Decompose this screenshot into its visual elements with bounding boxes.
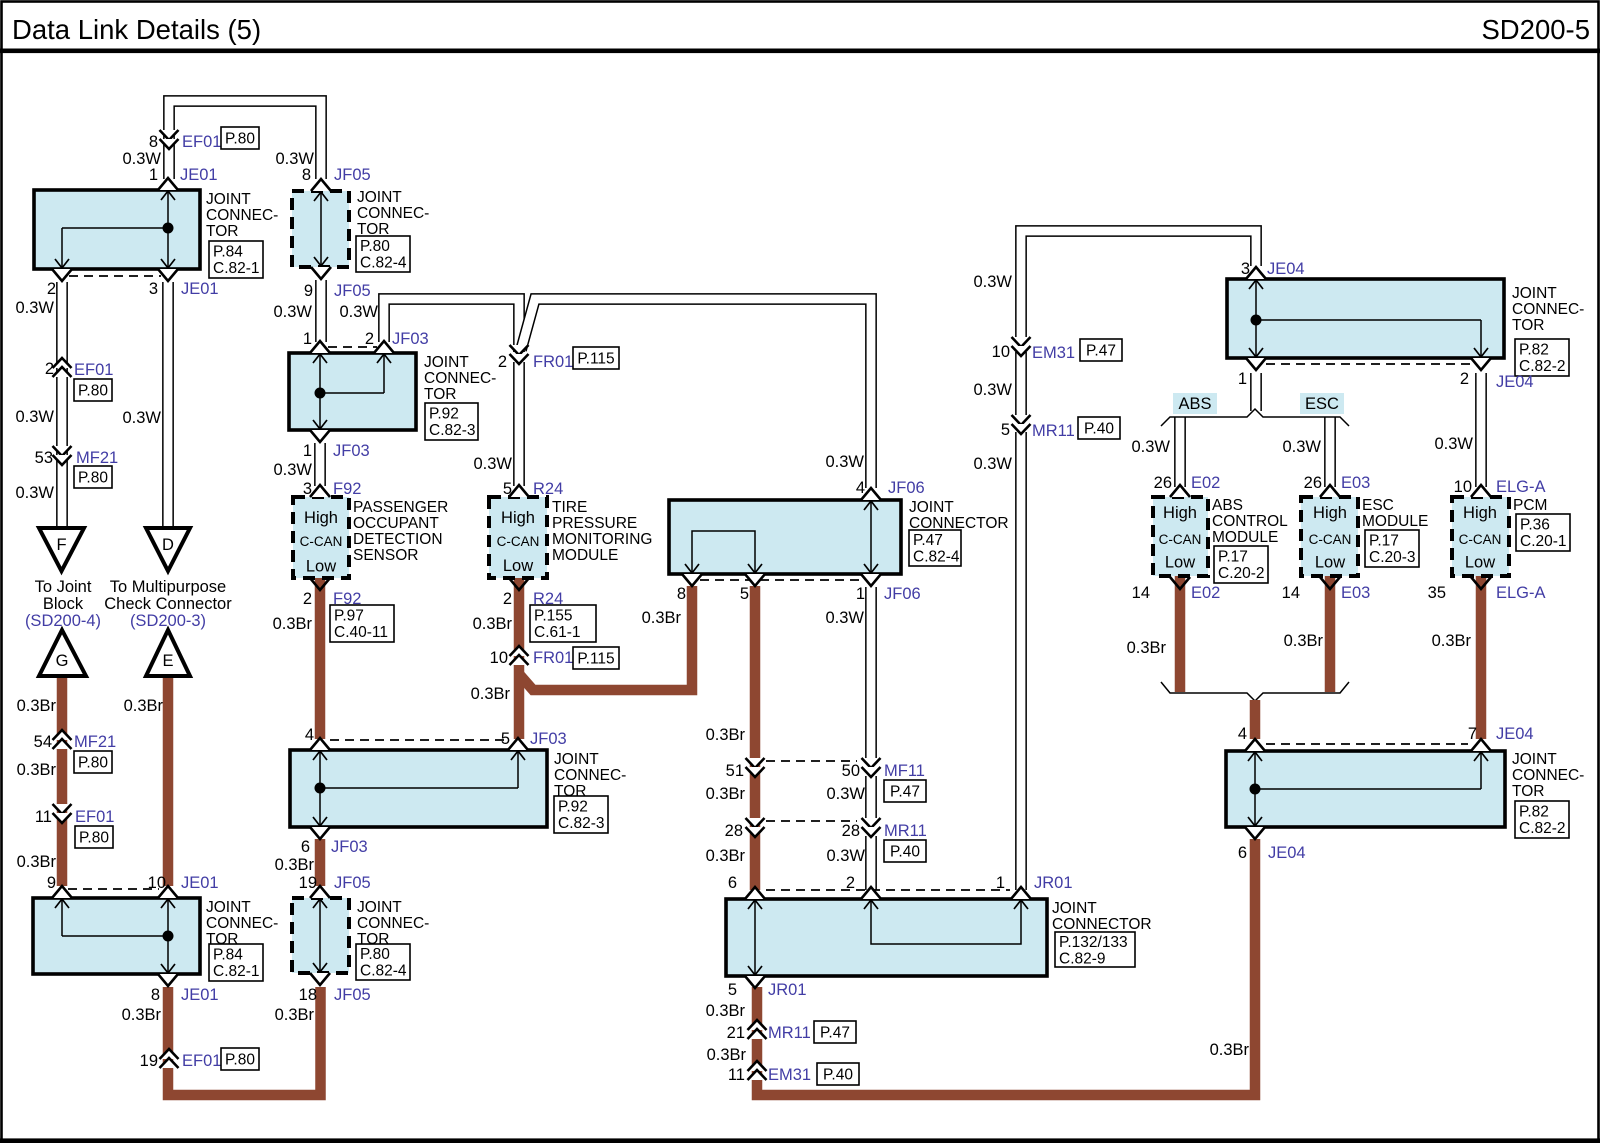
svg-text:P.80: P.80 [360,946,390,963]
svg-text:CONNECTOR: CONNECTOR [1052,916,1152,933]
label 0.3W wire MR11-5 to JR01-1 [973,455,1012,473]
svg-text:High: High [1463,504,1497,522]
svg-text:0.3W: 0.3W [273,461,312,479]
wire F92-2 to JF03-4 (0.3Br) [315,578,326,739]
svg-text:0.3Br: 0.3Br [17,853,57,871]
pin 9 JF05 label [304,282,371,300]
svg-text:Low: Low [306,558,336,576]
svg-text:MF21: MF21 [76,449,118,467]
wire split to E02-26 ABS branch (0.3W) [1174,417,1186,487]
svg-text:19: 19 [140,1052,158,1070]
svg-text:4: 4 [856,479,865,497]
pin 7 JE04 label (lower) [1468,725,1534,743]
label 0.3Br wire JF06-8 branch [471,685,511,703]
inline connector MF21 pin 53 [P.80] [35,446,119,488]
svg-text:CONNEC-: CONNEC- [1512,301,1584,318]
svg-text:JF03: JF03 [392,330,429,348]
pin 8 JE01 label [151,986,219,1004]
svg-text:JOINT: JOINT [909,499,954,516]
svg-text:0.3W: 0.3W [473,455,512,473]
svg-text:JR01: JR01 [1034,874,1073,892]
wire E03-14 to merge bus (0.3Br) [1325,576,1336,692]
module E02 ABS control module [1153,485,1288,589]
svg-text:28: 28 [725,822,743,840]
svg-text:6: 6 [301,838,310,856]
wire JF06-8 branch to R24 wire (0.3Br) [519,586,692,690]
svg-text:0.3Br: 0.3Br [706,1002,746,1020]
wire R24-2 to JF03-5 (0.3Br) [514,578,525,739]
wire EM31 loop to JE04-3 (0.3W) [1021,231,1256,340]
svg-text:SENSOR: SENSOR [353,547,418,564]
svg-text:F: F [56,536,66,554]
pin 26 E02 label [1154,474,1221,492]
pin 6 JF03 label [301,838,368,856]
svg-text:0.3W: 0.3W [15,408,54,426]
svg-text:14: 14 [1282,584,1300,602]
svg-text:8: 8 [149,133,158,151]
pin 1 JE04 label [1238,370,1247,388]
pin 5 JR01 label [728,981,807,999]
label 0.3W wire JF03-1 to F92 [273,461,312,479]
svg-text:CONNEC-: CONNEC- [357,205,429,222]
off-page triangle E from multipurpose check connector [146,630,190,676]
svg-text:0.3W: 0.3W [973,273,1012,291]
inline connector MR11 pins 28/28 [P.40] [725,818,927,862]
svg-text:11: 11 [728,1066,745,1084]
svg-text:E03: E03 [1341,474,1370,492]
svg-text:JE01: JE01 [181,280,219,298]
svg-text:10: 10 [992,343,1010,361]
svg-text:P.132/133: P.132/133 [1059,934,1128,951]
pin 10 JE01 label [148,874,219,892]
svg-text:1: 1 [303,442,312,460]
svg-text:1: 1 [149,166,158,184]
svg-text:0.3W: 0.3W [122,150,161,168]
svg-text:C-CAN: C-CAN [1159,532,1202,547]
svg-text:Block: Block [43,595,84,613]
svg-text:P.80: P.80 [225,1052,255,1069]
pin 2 JE04 label [1460,370,1534,391]
wire MF11-50 to MR11-28 (0.3W) [865,776,877,822]
svg-text:C.82-4: C.82-4 [360,963,407,980]
svg-text:54: 54 [34,733,52,751]
label 0.3Br wire MF21-54 to EF01-11 [17,761,57,779]
svg-text:EM31: EM31 [1032,344,1075,362]
svg-text:0.3Br: 0.3Br [706,847,746,865]
svg-text:FR01: FR01 [533,649,573,667]
wire MR11-28 to JR01-2 (0.3W) [865,836,877,890]
svg-text:JF05: JF05 [334,282,371,300]
wire JE01-1 to JF05-8 loop (0.3W) [169,101,321,179]
pin 3 JE01 label [149,280,219,298]
svg-text:CONNEC-: CONNEC- [1512,767,1584,784]
wire MR11-5 to JR01-1 (0.3W) [1015,432,1027,890]
svg-text:P.47: P.47 [1086,343,1116,360]
pin 1 JF06 label [856,585,921,603]
svg-text:JF03: JF03 [333,442,370,460]
pin 6 JE04 label (lower) [1238,844,1306,862]
svg-text:0.3W: 0.3W [1282,438,1321,456]
svg-text:C.82-3: C.82-3 [558,815,605,832]
svg-text:PASSENGER: PASSENGER [353,499,448,516]
dashed link JE01 pins 2-3 [69,275,161,277]
svg-text:26: 26 [1154,474,1172,492]
joint connector JF05 (bottom) P.80 C.82-4 [292,886,429,985]
label 0.3W wire JF05-9 [273,303,312,321]
svg-text:0.3Br: 0.3Br [124,697,164,715]
svg-text:0.3Br: 0.3Br [471,685,511,703]
label 0.3W wire EF01-2 to MF21-53 [15,408,54,426]
label 0.3Br wire G [17,697,57,715]
label 0.3W wire JE01-3 to D [122,409,161,427]
svg-text:P.80: P.80 [360,238,390,255]
pin 14 E02 label [1132,584,1221,602]
svg-text:High: High [1163,504,1197,522]
net tag ABS [1173,393,1217,414]
svg-text:P.84: P.84 [213,947,243,964]
svg-text:JE01: JE01 [180,166,218,184]
pin 9 JE01 label [47,874,56,892]
inline connector MF11 pins 51/50 [P.47] [726,758,926,802]
wire JF05-9 to JF03-1 (0.3W) [315,280,327,342]
svg-text:CONNEC-: CONNEC- [206,207,278,224]
svg-text:ESC: ESC [1362,497,1394,514]
svg-text:JF06: JF06 [884,585,921,603]
wire JE01-8 to JF05-18 bottom run (0.3Br) [168,987,321,1095]
svg-text:10: 10 [490,649,508,667]
svg-text:C-CAN: C-CAN [300,534,343,549]
svg-text:7: 7 [1468,725,1477,743]
svg-text:C.82-4: C.82-4 [360,255,407,272]
label 0.3Br wire R24-2 [473,615,513,633]
label 0.3Br wire E [124,697,164,715]
dashed link JE04 pins 4-7 [1266,743,1468,745]
svg-text:2: 2 [303,590,312,608]
joint connector JF03 (lower) P.92 C.82-3 [290,738,626,839]
svg-text:ABS: ABS [1178,395,1211,413]
svg-text:1: 1 [856,585,865,603]
ABS/ESC split bus [1161,409,1349,426]
svg-text:2: 2 [45,360,54,378]
svg-text:0.3W: 0.3W [826,785,865,803]
svg-text:5: 5 [1001,421,1010,439]
wire EM31-10 to MR11-5 (0.3W) [1015,352,1027,420]
label 0.3W ELG-A branch [1434,435,1473,453]
pin 5 R24 label [503,480,563,498]
pin 4 JF06 label [856,479,925,497]
pin 2 R24 label [P.155 C.61-1] [503,590,596,642]
svg-text:P.92: P.92 [429,406,459,423]
joint connector JE04 (bottom) P.82 C.82-2 [1226,739,1584,839]
svg-text:2: 2 [47,280,56,298]
svg-text:JF05: JF05 [334,874,371,892]
svg-text:0.3Br: 0.3Br [707,1046,747,1064]
svg-text:TOR: TOR [1512,783,1544,800]
svg-text:JE01: JE01 [181,986,219,1004]
wire JE04-2 to ELG-A-10 (0.3W) [1475,373,1487,487]
wire JF03-2 to FR01-2 (0.3W) [384,299,519,352]
svg-text:JOINT: JOINT [424,354,469,371]
label 0.3Br wire JE04-6 bottom run [1210,1041,1250,1059]
svg-text:18: 18 [299,986,317,1004]
pin 4 JE04 label (lower) [1238,725,1247,743]
svg-text:JE01: JE01 [181,874,219,892]
svg-text:P.82: P.82 [1519,342,1549,359]
inline connector MR11 pin 5 [P.40] [1001,415,1120,440]
label 0.3Br wire JE01-8 [122,1006,162,1024]
svg-text:CONNEC-: CONNEC- [554,767,626,784]
label 0.3Br wire JF03-6 [275,856,315,874]
joint connector JE01 (bottom) P.84 C.82-1 [33,886,278,986]
label 0.3Br wire ELG-A-35 [1432,632,1472,650]
svg-text:MONITORING: MONITORING [552,531,652,548]
svg-text:P.80: P.80 [78,470,108,487]
dashed link JF06 pins 8-1 [700,579,862,581]
svg-text:0.3Br: 0.3Br [473,615,513,633]
label 0.3W wire FR01 to R24 [473,455,512,473]
svg-text:P.84: P.84 [213,244,243,261]
wire JF06-5 to JR01-6 (0.3Br) [750,586,761,890]
svg-text:E02: E02 [1191,584,1220,602]
svg-text:JOINT: JOINT [1512,751,1557,768]
joint connector JR01 P.132/133 C.82-9 [726,887,1152,988]
svg-text:0.3Br: 0.3Br [1127,639,1167,657]
label 0.3W ABS branch [1131,438,1170,456]
svg-text:19: 19 [299,874,317,892]
wire ELG-A-35 to JE04-7 (0.3Br) [1476,576,1487,739]
pin 5 JF03 label (lower top) [501,730,567,748]
svg-text:JOINT: JOINT [206,899,251,916]
svg-text:0.3Br: 0.3Br [273,615,313,633]
svg-text:EF01: EF01 [75,808,114,826]
pin 2 F92 label [P.97 C.40-11] [303,590,394,642]
svg-text:P.80: P.80 [78,383,108,400]
svg-text:EF01: EF01 [182,133,221,151]
svg-text:Data Link Details (5): Data Link Details (5) [12,14,261,45]
label 0.3Br wire JR01-5 [706,1002,746,1020]
svg-text:P.80: P.80 [78,755,108,772]
svg-text:EM31: EM31 [768,1066,811,1084]
svg-text:CONTROL: CONTROL [1212,513,1288,530]
wire JF03-1 to F92-3 (0.3W) [314,443,326,486]
svg-text:4: 4 [305,726,314,744]
label 0.3W wire EM31-10 to MR11-5 [973,381,1012,399]
svg-text:C.61-1: C.61-1 [534,624,581,641]
svg-text:0.3Br: 0.3Br [275,856,315,874]
svg-text:P.97: P.97 [334,608,364,625]
dashed link JF03 pins 4-5 [330,739,507,741]
svg-text:C.82-3: C.82-3 [429,422,476,439]
joint connector JF06 P.47 C.82-4 [669,488,1009,586]
svg-text:DETECTION: DETECTION [353,531,443,548]
svg-text:EF01: EF01 [182,1052,221,1070]
svg-text:5: 5 [501,730,510,748]
svg-text:P.115: P.115 [577,651,614,668]
svg-text:JF05: JF05 [334,166,371,184]
label 0.3Br wire F92-2 [273,615,313,633]
inline connector EF01 pin 11 [P.80] [35,804,115,848]
svg-text:JOINT: JOINT [206,191,251,208]
brown merge bus to JE04-4 [1161,682,1349,701]
label 0.3W wire JF06-1 [825,609,864,627]
inline connector EF01 pin 19 [P.80] [140,1048,259,1070]
label 0.3Br wire EF01-11 to JE01-9 [17,853,57,871]
svg-text:CONNEC-: CONNEC- [206,915,278,932]
wire merge bus to JE04-4 (0.3Br) [1250,700,1261,739]
off-page triangle D to multipurpose check connector [146,528,190,571]
svg-text:PRESSURE: PRESSURE [552,515,637,532]
label 0.3Br wire 28 to JR01-6 [706,847,746,865]
svg-text:0.3Br: 0.3Br [275,1006,315,1024]
inline connector MF21 pin 54 [P.80] [34,730,117,773]
label 0.3Br wire JF06-8 [642,609,682,627]
wire JR01-5 to JE04-6 bottom run (0.3Br) [757,839,1255,1095]
label 0.3Br wire E03-14 [1284,632,1324,650]
svg-text:JOINT: JOINT [554,751,599,768]
note to multipurpose check connector (SD200-3) [104,578,232,630]
svg-text:26: 26 [1304,474,1322,492]
svg-text:Low: Low [503,557,533,575]
svg-text:35: 35 [1428,584,1446,602]
pin 10 ELG-A label [1454,478,1546,496]
svg-text:50: 50 [842,762,860,780]
pin 1 JF03 label (bottom) [303,442,370,460]
svg-text:E02: E02 [1191,474,1220,492]
svg-text:0.3W: 0.3W [973,381,1012,399]
svg-text:E03: E03 [1341,584,1370,602]
dashed link JE04 pins 1-2 [1266,363,1470,365]
svg-text:0.3W: 0.3W [826,847,865,865]
svg-text:JF03: JF03 [530,730,567,748]
svg-text:0.3Br: 0.3Br [706,785,746,803]
svg-text:6: 6 [1238,844,1247,862]
wire triangle G to JE01-9 (0.3Br) [57,676,68,886]
inline connector EM31 pin 11 [P.40] [728,1061,859,1085]
wire JF06-4 drop (0.3W) [0,0,1,1]
svg-text:0.3W: 0.3W [1434,435,1473,453]
label 0.3Br wire E02-14 [1127,639,1167,657]
svg-text:E: E [162,652,173,670]
svg-text:P.17: P.17 [1369,533,1399,550]
svg-text:0.3Br: 0.3Br [1284,632,1324,650]
wire triangle E to JE01-10 (0.3Br) [163,676,174,886]
dashed link JF03 pins 1-2 [328,346,377,348]
svg-text:C.82-2: C.82-2 [1519,820,1566,837]
svg-text:D: D [162,536,174,554]
svg-text:C-CAN: C-CAN [497,534,540,549]
svg-text:TIRE: TIRE [552,499,587,516]
wire FR01-2 to JF06-4 (0.3W) [521,299,871,488]
svg-text:C.40-11: C.40-11 [334,624,388,641]
svg-text:JF03: JF03 [331,838,368,856]
svg-text:0.3W: 0.3W [825,609,864,627]
svg-text:4: 4 [1238,725,1247,743]
svg-text:10: 10 [1454,478,1472,496]
dashed link 28-28 MR11 row [766,820,857,822]
svg-text:14: 14 [1132,584,1150,602]
svg-text:2: 2 [498,353,507,371]
svg-text:JE04: JE04 [1496,725,1534,743]
svg-text:JF05: JF05 [334,986,371,1004]
svg-text:9: 9 [304,282,313,300]
pin 19 JF05 label [299,874,371,892]
label 0.3W wire 50 to 28 [826,785,865,803]
pin 8 JF05 label [302,166,371,184]
label 0.3W wire JF03-2 [339,303,378,321]
title [12,14,1590,45]
svg-text:9: 9 [47,874,56,892]
svg-text:C.20-1: C.20-1 [1520,533,1567,550]
svg-text:2: 2 [1460,370,1469,388]
svg-text:28: 28 [842,822,860,840]
svg-text:P.115: P.115 [577,351,614,368]
inline connector FR01 pin 2 [P.115] [498,345,619,371]
label 0.3W wire JE01-1 [122,150,161,168]
svg-text:C.82-4: C.82-4 [913,549,960,566]
wire JF06-1 to MF11-50 (0.3W) [865,587,877,762]
svg-text:High: High [501,509,535,527]
pin 35 ELG-A label [1428,584,1546,602]
pin 1 JF03 label (top) [303,330,312,348]
svg-text:C-CAN: C-CAN [1309,532,1352,547]
svg-text:0.3Br: 0.3Br [642,609,682,627]
svg-text:TOR: TOR [424,386,456,403]
svg-text:Low: Low [1465,554,1495,572]
svg-text:P.92: P.92 [558,799,588,816]
svg-text:Low: Low [1165,554,1195,572]
svg-text:8: 8 [302,166,311,184]
svg-text:G: G [56,652,69,670]
svg-text:CONNEC-: CONNEC- [357,915,429,932]
pin 18 JF05 label [299,986,371,1004]
svg-text:P.17: P.17 [1218,549,1248,566]
svg-text:5: 5 [728,981,737,999]
svg-text:EF01: EF01 [74,361,113,379]
svg-text:0.3W: 0.3W [825,453,864,471]
svg-text:0.3W: 0.3W [339,303,378,321]
label 0.3W ESC branch [1282,438,1321,456]
svg-text:ELG-A: ELG-A [1496,478,1546,496]
svg-text:1: 1 [1238,370,1247,388]
svg-text:51: 51 [726,762,744,780]
label 0.3Br wire JF05-18 [275,1006,315,1024]
svg-text:0.3Br: 0.3Br [706,726,746,744]
label 0.3W wire JE01-2 segment [15,299,54,317]
svg-text:21: 21 [727,1024,745,1042]
pin 5 JF06 label [740,585,749,603]
inline connector EF01 pin 2 [P.80] [45,358,114,401]
wire E02-14 to merge bus (0.3Br) [1175,576,1186,692]
svg-text:6: 6 [728,874,737,892]
svg-text:MF21: MF21 [74,733,116,751]
inline connector EF01 pin 8 [P.80] [149,127,259,151]
svg-text:ESC: ESC [1305,395,1339,413]
off-page triangle G from joint block [39,630,86,676]
svg-text:0.3W: 0.3W [273,303,312,321]
svg-text:JOINT: JOINT [1512,285,1557,302]
pin 3 JE04 label [1241,260,1305,278]
note to joint block (SD200-4) [25,578,101,630]
svg-text:2: 2 [365,330,374,348]
pin 6 JR01 label [728,874,737,892]
svg-text:To Joint: To Joint [35,578,92,596]
label 0.3Br wire 51 to 28 [706,785,746,803]
label 0.3Br wire JF06-5 [706,726,746,744]
svg-text:JOINT: JOINT [357,899,402,916]
pin 4 JF03 label (lower top) [305,726,314,744]
svg-text:MR11: MR11 [768,1024,811,1042]
svg-text:0.3Br: 0.3Br [17,697,57,715]
